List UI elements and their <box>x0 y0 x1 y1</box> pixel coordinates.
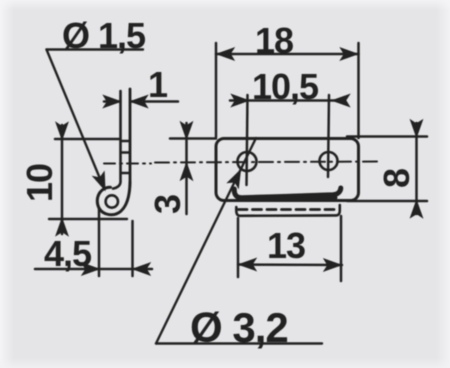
dimension 10 (height): dimension line and extension lines <box>49 123 127 236</box>
svg-text:13: 13 <box>267 225 305 266</box>
svg-text:8: 8 <box>376 169 417 188</box>
dimension 10,5 (hole spacing): dimension line <box>230 95 350 107</box>
side view: horizontal hole centreline <box>104 163 151 165</box>
svg-text:3: 3 <box>147 195 188 214</box>
front view: left hole (3,2) <box>238 152 257 171</box>
front view: plate outline (18 x 8, rounded corners) <box>216 139 359 201</box>
svg-text:4,5: 4,5 <box>44 233 92 274</box>
front view: curled hem bottom edge <box>236 205 340 216</box>
dimension 13 (hem width): extension + dimension lines <box>238 216 342 281</box>
label diameter 3,2 with leader to left hole <box>156 138 322 344</box>
dimension 3 (hole to top edge): extension + dimension lines <box>170 122 216 214</box>
side view: bracket plate edges (1mm thick, seen edge-on) <box>113 89 130 189</box>
dimension 8 (plate height): extension + dimension lines <box>347 120 427 218</box>
side view: rolled curl (hem) at bottom, outer surface <box>97 182 130 215</box>
front view: horizontal centreline through holes <box>155 162 381 163</box>
svg-text:1: 1 <box>148 64 168 105</box>
front view: curled hem hidden edge (dashed) <box>238 208 338 211</box>
svg-text:18: 18 <box>255 20 293 61</box>
svg-text:Ø 1,5: Ø 1,5 <box>62 15 146 56</box>
dimension 18 (plate width): extension + dimension lines <box>216 43 359 138</box>
side view: hidden hole rungs between plate edges <box>121 141 130 173</box>
paper edge lightening <box>0 0 14 368</box>
front view: vertical centreline right hole <box>328 95 329 177</box>
side view: curl inner circle (1.5mm bore) <box>106 195 118 207</box>
svg-text:10: 10 <box>19 164 60 202</box>
svg-text:10,5: 10,5 <box>252 66 319 107</box>
dimension 1 (thickness): dimension line <box>104 96 179 108</box>
svg-text:Ø 3,2: Ø 3,2 <box>190 304 288 351</box>
front view: fold line shadow thickening <box>240 198 336 200</box>
dimension 4,5 (curl offset): dimension line and extension lines <box>35 208 152 276</box>
front view: right hole (3,2) <box>320 152 338 170</box>
front view: vertical centreline left hole <box>247 95 248 185</box>
front view: curled hem seen from front, top fold line <box>234 188 341 198</box>
label diameter 1,5 with leader to curl <box>47 50 144 193</box>
